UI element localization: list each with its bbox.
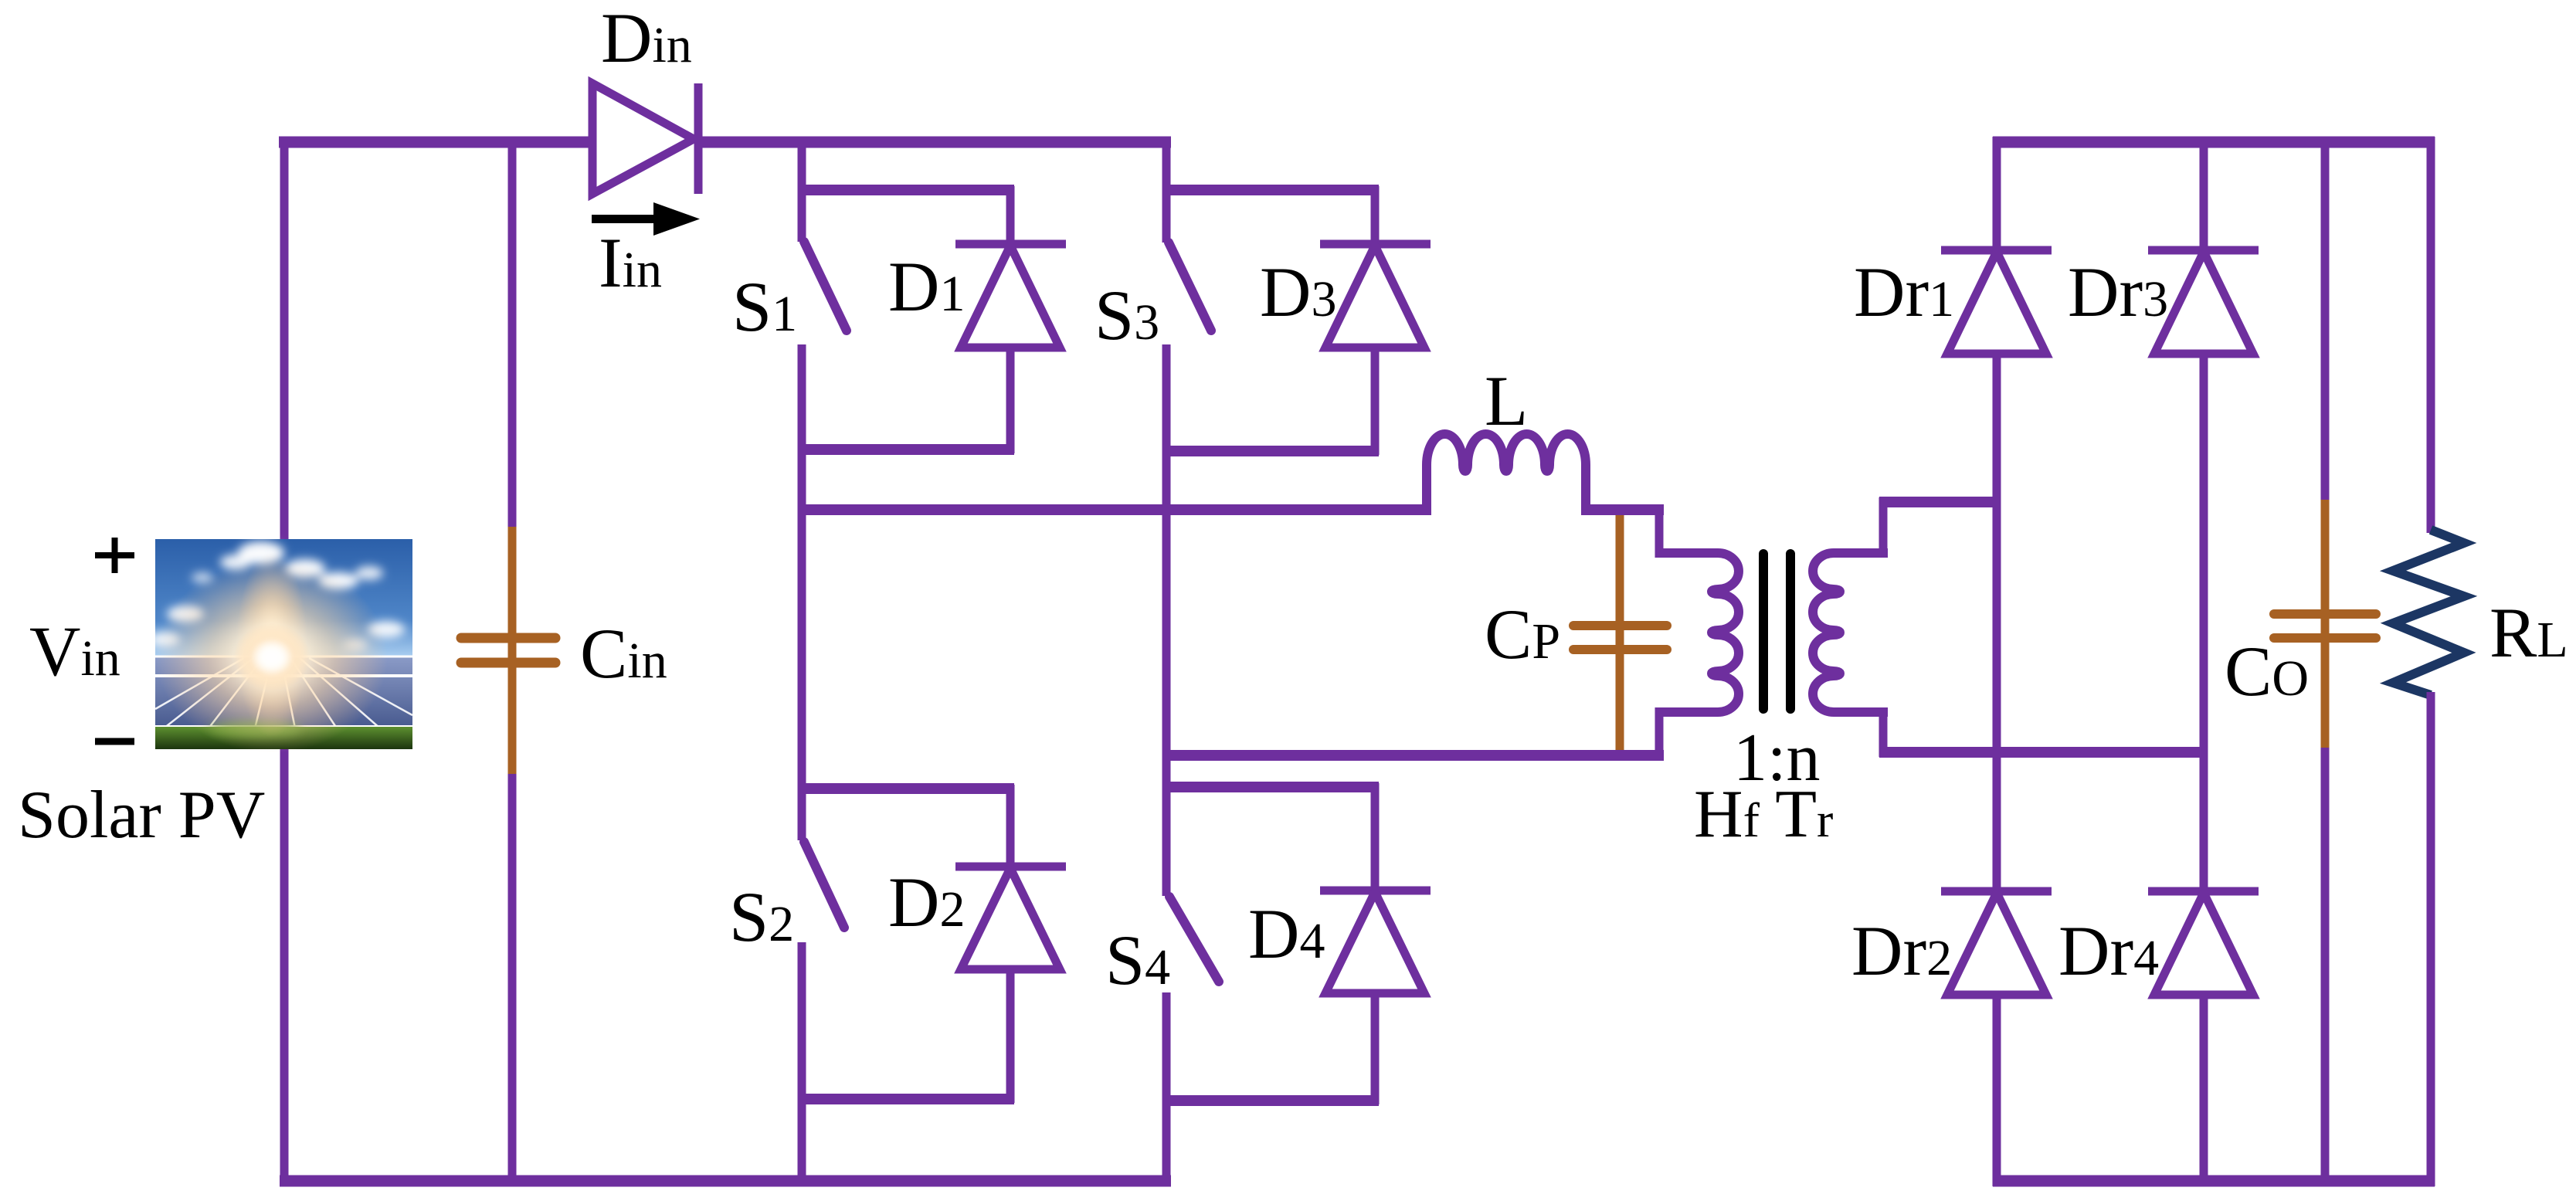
diode D1 triangle [961,246,1060,348]
wire secondary step top vertical [1879,497,1888,558]
capacitor Cin plates [461,638,555,663]
diode D2 top branch [798,783,1014,794]
wire bottom rail (PV- to S4 leg) [280,1176,1171,1187]
diode Dr2 triangle [1947,893,2046,995]
diode D3 cathode bar [1320,240,1431,249]
capacitor Cin lead purple bottom [508,772,517,1186]
diode D3 triangle [1325,246,1424,348]
switch S1 / S2 shared leg [798,344,806,840]
capacitor Co brown lead [2321,500,2330,751]
diode D1 top branch [798,185,1014,195]
wire primary step top vertical [1655,505,1664,558]
svg-text:Hf Tr: Hf Tr [1694,777,1833,852]
svg-text:Cin: Cin [580,614,667,693]
diode Dr1 top lead [1993,137,2001,250]
wire output bottom rail [1993,1176,2435,1187]
label - (PV negative) [95,738,134,745]
diode D2 cathode bar [955,863,1066,871]
switch S4 lower leg [1162,992,1171,1186]
svg-text:Iin: Iin [599,223,662,302]
svg-text:CO: CO [2225,632,2309,711]
solar PV photo [149,539,412,753]
switch S2 blade [804,842,844,928]
wire secondary step bottom vertical [1879,707,1888,757]
switch S3 / S4 shared leg [1162,344,1171,896]
wire Dr3-Dr4 leg [2200,354,2208,891]
svg-text:S3: S3 [1095,276,1159,355]
diode Din [592,83,698,194]
diode Dr4 triangle [2154,893,2253,995]
svg-text:D1: D1 [888,247,965,326]
diode D2 bottom lead [1006,969,1015,1103]
diode Dr2 cathode bar [1941,887,2052,896]
diode D2 bottom branch [798,1094,1014,1104]
transformer core [1763,554,1790,709]
diode D3 bottom lead [1371,348,1380,455]
capacitor Cin brown lead [508,527,517,774]
diode D4 bottom branch [1162,1095,1379,1106]
diode D1 cathode bar [955,240,1066,249]
svg-text:RL: RL [2489,593,2568,672]
resistor RL zigzag [2393,530,2464,695]
diode D3 bottom branch [1162,446,1379,456]
transformer primary winding [1655,553,1739,712]
wire Dr1-Dr2 leg [1993,354,2001,891]
resistor RL top lead [2427,137,2435,533]
switch S4 blade [1169,897,1219,982]
switch S2 lower leg [798,942,806,1186]
capacitor Co purple lead top [2321,137,2330,504]
diode Dr2 bottom lead [1993,995,2001,1186]
wire mid rail A continue (inductor to Cp node and step) [1581,504,1664,515]
svg-text:Dr1: Dr1 [1854,253,1954,331]
diode D3 top branch [1162,185,1379,195]
diode D4 bottom lead [1371,993,1380,1104]
diode Dr3 cathode bar [2148,246,2259,255]
svg-text:Dr4: Dr4 [2058,911,2159,990]
diode Dr1 triangle [1947,252,2046,354]
svg-text:S2: S2 [729,877,794,956]
capacitor Co plates [2274,614,2376,638]
svg-text:Vin: Vin [29,612,120,690]
diode Dr1 cathode bar [1941,246,2052,255]
diode D2 triangle [961,868,1060,969]
diode D3 top lead [1371,186,1380,244]
diode Dr4 cathode bar [2148,887,2259,896]
diode Dr4 bottom lead [2200,995,2208,1186]
switch S1 blade [804,242,847,331]
svg-text:Dr2: Dr2 [1851,911,1952,990]
svg-text:Solar PV: Solar PV [18,778,265,853]
switch S3 leg top [1162,137,1171,243]
svg-text:D3: D3 [1260,253,1336,331]
diode D2 top lead [1006,785,1015,867]
wire left vertical (PV positive lead) [280,137,289,1186]
diode Dr3 top lead [2200,137,2208,250]
diode D4 triangle [1325,892,1424,993]
switch S1 leg top [798,137,806,242]
diode D1 bottom branch [798,444,1014,455]
transformer secondary winding [1813,553,1888,712]
label + (PV positive) [95,538,134,573]
capacitor Cin lead purple top [508,137,517,528]
svg-text:S1: S1 [732,267,797,346]
wire primary step top horizontal [1655,548,1718,558]
svg-text:D2: D2 [888,863,965,941]
arrow Iin current direction [592,202,700,236]
wire secondary top rail to Dr1 leg [1879,497,2001,507]
wire primary step bottom vertical [1655,707,1664,760]
capacitor Cp brown lead [1616,515,1624,760]
wire secondary bottom rail to Dr4 leg [1879,747,2208,758]
wire top rail left (PV+ to Din anode) [279,137,596,148]
diode D4 cathode bar [1320,887,1431,895]
wire top rail (Din cathode to S3 leg) [694,137,1171,148]
svg-text:Din: Din [601,0,692,77]
diode D4 top lead [1371,783,1380,891]
capacitor Co purple lead bottom [2321,748,2330,1186]
diode D4 top branch [1162,782,1379,792]
svg-text:CP: CP [1485,595,1560,673]
svg-text:S4: S4 [1105,921,1170,999]
svg-text:D4: D4 [1248,894,1325,973]
wire bridge mid rail A (S1 midpoint to inductor) [798,504,1431,515]
switch S3 blade [1169,243,1211,331]
capacitor Cp plates [1573,626,1667,650]
inductor L [1427,434,1586,514]
resistor RL bottom lead [2427,692,2435,1186]
wire bridge mid rail B (S4 midpoint to transformer bottom) [1162,750,1664,761]
wire output top rail [1993,137,2435,148]
diode Dr3 triangle [2154,252,2253,354]
diode D1 bottom lead [1006,348,1015,453]
svg-text:L: L [1485,361,1528,440]
diode D1 top lead [1006,186,1015,244]
svg-text:Dr3: Dr3 [2068,253,2168,331]
